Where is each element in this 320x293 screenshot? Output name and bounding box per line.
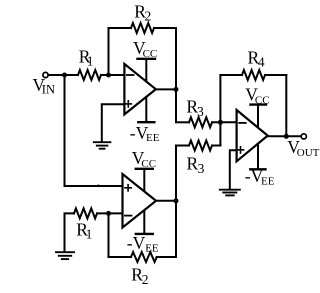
wire R2 right segment bbox=[154, 27, 176, 29]
U1 plus sign bbox=[125, 101, 131, 107]
svg-text:CC: CC bbox=[143, 48, 158, 60]
node C (U2 - input) bbox=[106, 211, 111, 216]
svg-text:CC: CC bbox=[141, 158, 156, 170]
resistor R4 bbox=[242, 70, 265, 80]
wire R4 down to output bbox=[285, 75, 287, 136]
wire U3 output bbox=[267, 135, 301, 137]
wire bottom R2 left segment bbox=[109, 256, 132, 258]
resistor R2 (top) bbox=[131, 23, 154, 33]
U3 plus sign bbox=[237, 147, 243, 153]
wire U1 + input bbox=[102, 104, 125, 141]
input terminal vIN bbox=[43, 72, 48, 77]
resistor R1 (bottom) bbox=[74, 208, 97, 218]
node U2 output bbox=[174, 198, 179, 203]
resistor R2 (bottom) bbox=[131, 252, 157, 262]
wire input to R1 bbox=[48, 74, 78, 76]
svg-text:EE: EE bbox=[145, 243, 159, 255]
wire R4 right segment bbox=[265, 74, 286, 76]
op-amp U1 bbox=[124, 64, 155, 115]
svg-text:-V: -V bbox=[127, 233, 146, 253]
wire bottom R1 to U2 inverting input bbox=[97, 212, 123, 214]
node A bbox=[106, 73, 111, 78]
node B (summing node) bbox=[218, 120, 223, 125]
svg-text:IN: IN bbox=[42, 83, 55, 97]
power -VEE (U2) stub bbox=[143, 210, 145, 234]
node input junction bbox=[62, 73, 67, 78]
wire top R3 left segment bbox=[176, 121, 189, 123]
power -VEE (U1) stub bbox=[145, 96, 147, 122]
node small dot on + wire bbox=[97, 185, 100, 188]
wire R1 to U1 inverting input bbox=[101, 74, 125, 76]
power -VEE (U3) stub bbox=[257, 143, 259, 169]
power VCC (U3) stub bbox=[257, 105, 259, 129]
power VCC (U1) stub bbox=[145, 59, 147, 83]
ground (U1 + input) bbox=[94, 142, 111, 149]
op-amp U3 bbox=[237, 110, 268, 161]
wire node A up to R2 bbox=[108, 28, 110, 75]
svg-text:4: 4 bbox=[258, 55, 265, 70]
wire U1 output bbox=[156, 88, 177, 90]
svg-text:2: 2 bbox=[145, 9, 152, 24]
svg-text:CC: CC bbox=[255, 94, 270, 106]
U1 minus sign bbox=[127, 74, 134, 76]
U3 minus sign bbox=[239, 122, 246, 124]
wire U2 output bbox=[156, 200, 176, 202]
wire U2 feedback vertical bbox=[175, 146, 177, 258]
wire feedback down to output and R3 bbox=[175, 28, 177, 122]
op-amp U2 bbox=[123, 174, 157, 228]
wire node B vertical (R4 to bottom R3) bbox=[219, 75, 221, 146]
svg-text:OUT: OUT bbox=[297, 147, 320, 159]
wire top R3 to U3 - input bbox=[212, 121, 237, 123]
resistor R1 (top) bbox=[78, 70, 101, 80]
svg-text:EE: EE bbox=[146, 132, 160, 144]
wire bottom R3 right to node B vertical bbox=[212, 145, 220, 147]
wire bottom R1 left corner to ground bbox=[65, 213, 75, 251]
resistor R3 (bottom) bbox=[189, 141, 212, 151]
wire vIN down to U2 + input bbox=[65, 75, 123, 186]
node output junction bbox=[284, 134, 289, 139]
ground (U3 + input) bbox=[220, 190, 240, 196]
svg-text:3: 3 bbox=[197, 104, 204, 119]
wire bottom R3 left segment bbox=[176, 145, 189, 147]
wire node C down to R2 bbox=[108, 213, 110, 257]
wire U3 + input bbox=[230, 150, 237, 189]
power VCC (U2) stub bbox=[143, 169, 145, 192]
U2 plus sign bbox=[125, 185, 131, 191]
U2 minus sign bbox=[125, 215, 132, 217]
svg-text:1: 1 bbox=[87, 54, 94, 69]
ground (bottom R1) bbox=[56, 252, 74, 259]
node U1 output bbox=[174, 87, 179, 92]
svg-text:3: 3 bbox=[198, 161, 205, 176]
svg-text:2: 2 bbox=[142, 272, 149, 287]
wire R4 left segment bbox=[220, 74, 242, 76]
svg-text:1: 1 bbox=[86, 227, 93, 242]
output terminal vOUT bbox=[301, 134, 306, 139]
svg-text:EE: EE bbox=[261, 176, 275, 188]
resistor R3 (top) bbox=[189, 117, 212, 127]
wire R2 left segment bbox=[109, 27, 132, 29]
wire bottom R2 right segment bbox=[157, 256, 176, 258]
